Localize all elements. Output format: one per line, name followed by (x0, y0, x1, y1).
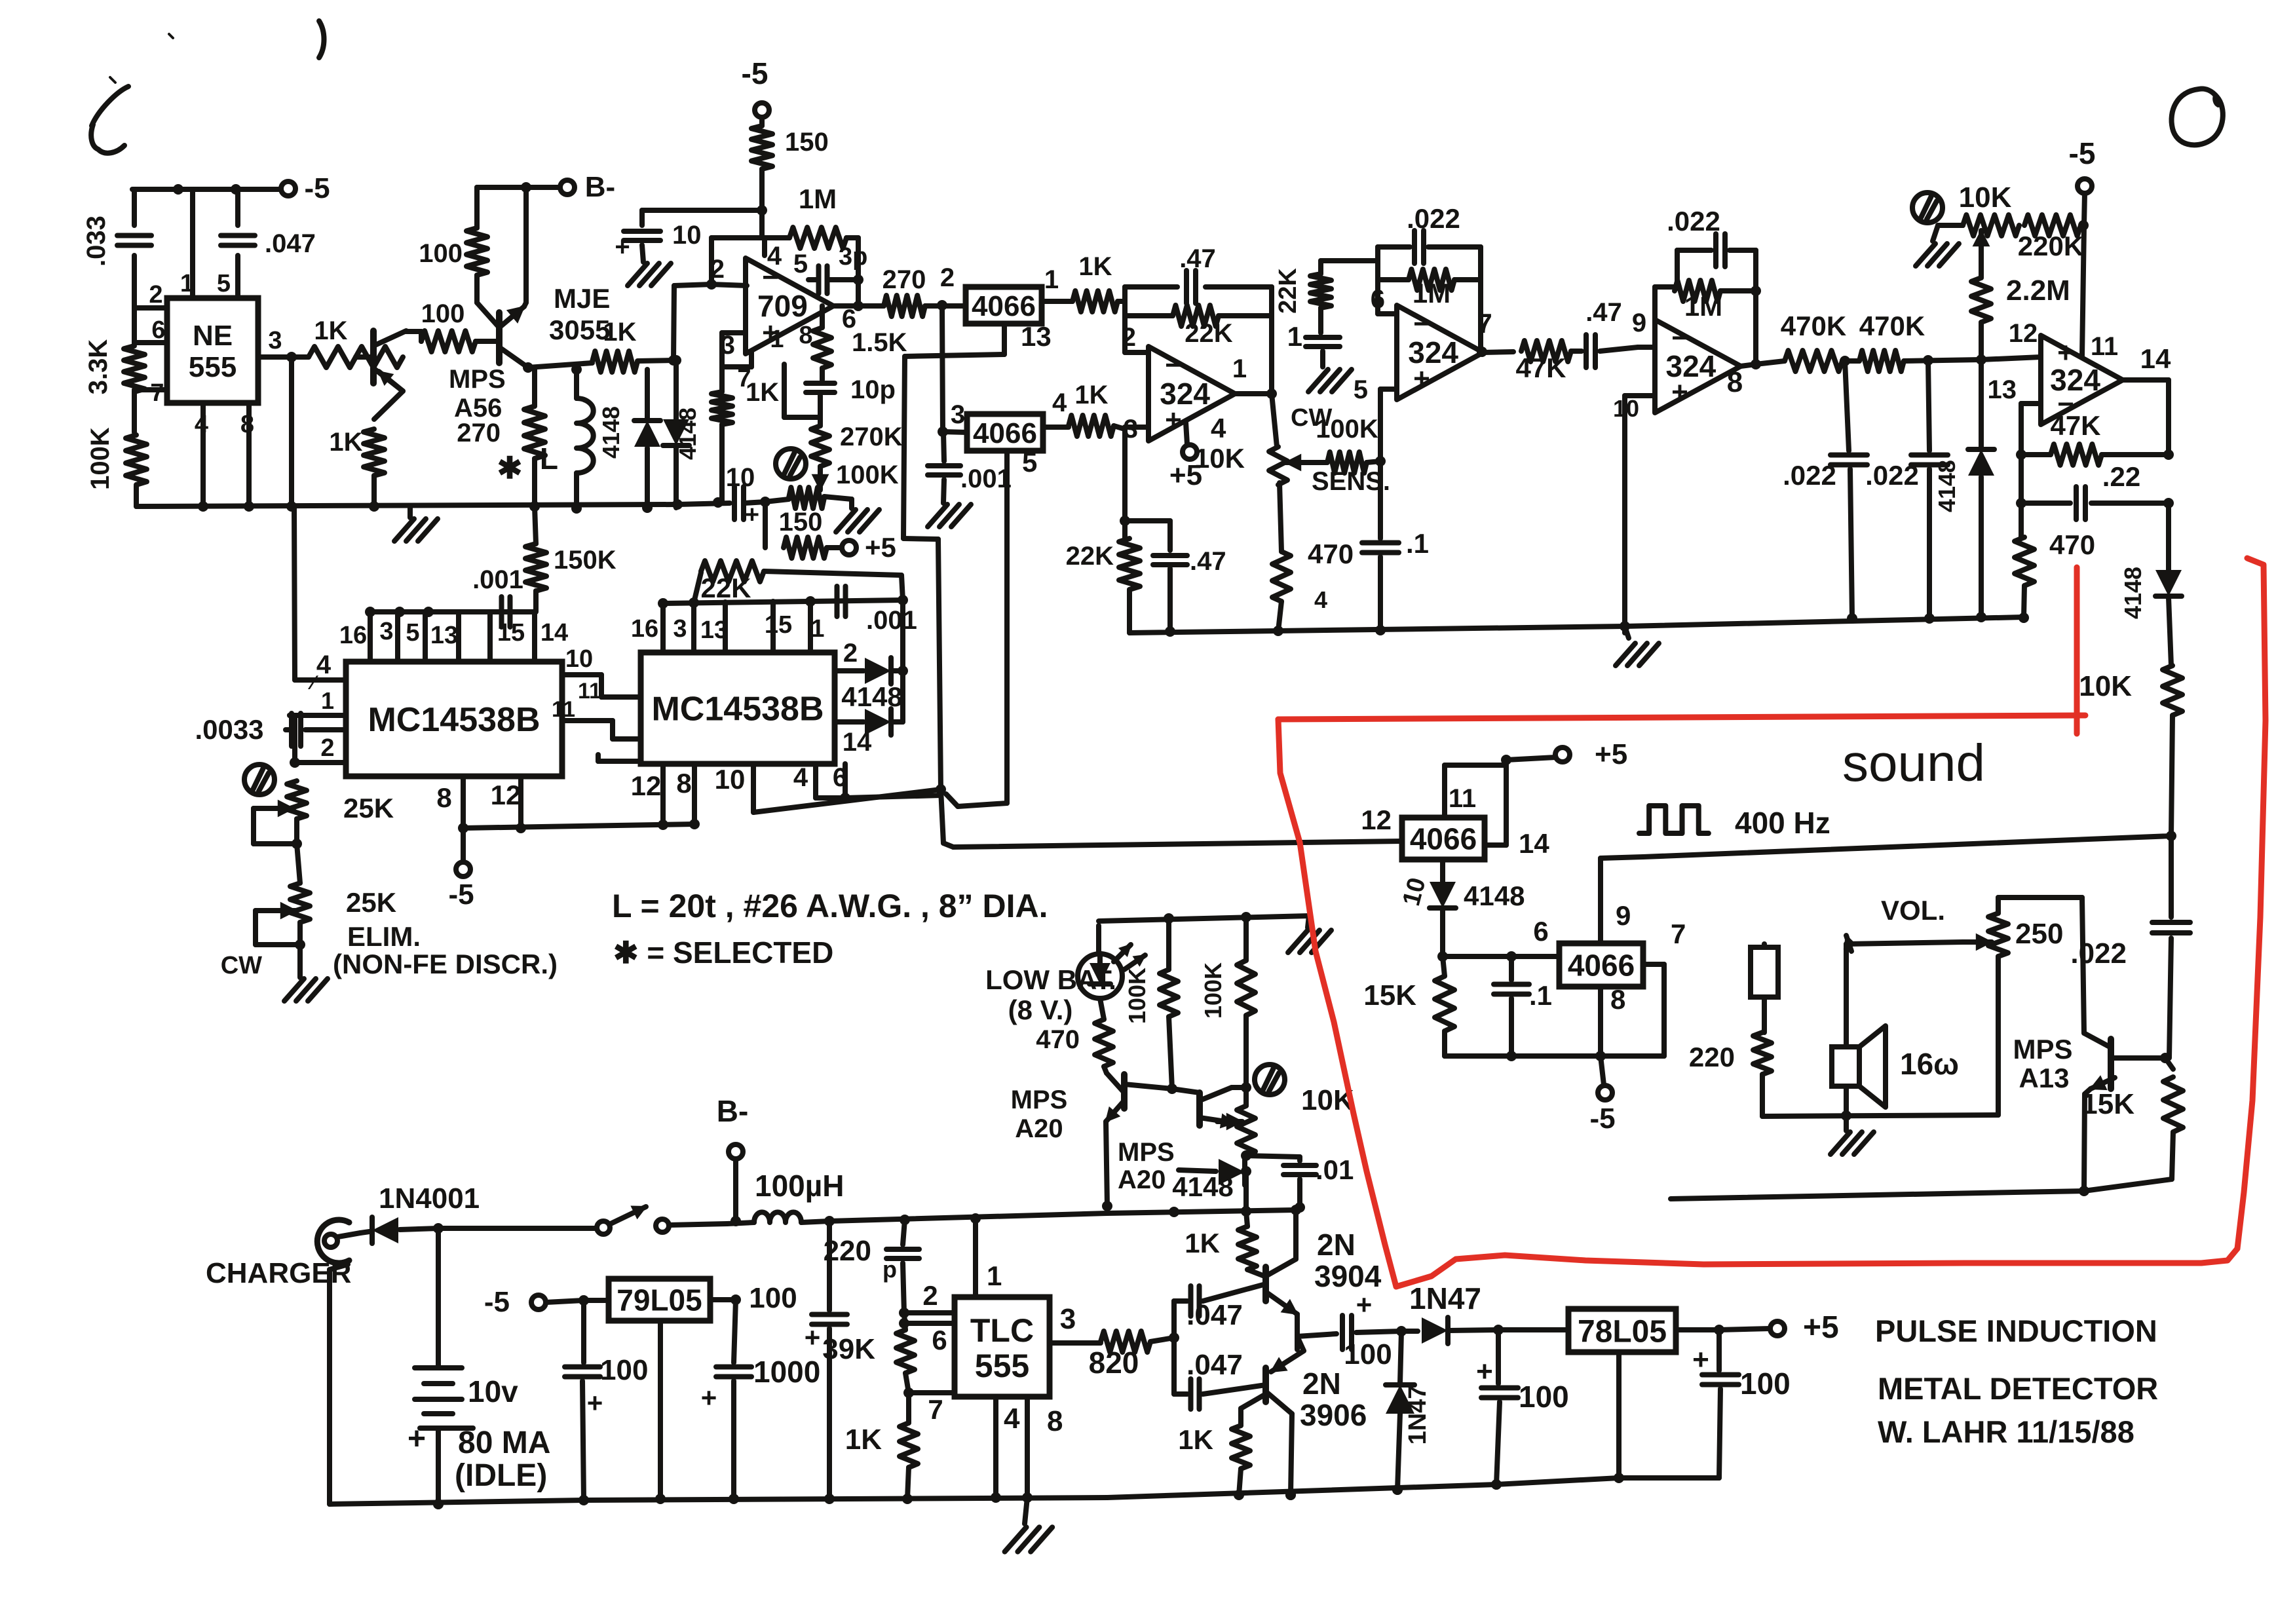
sound bottom rail (1445, 1051, 1664, 1061)
svg-text:1000: 1000 (753, 1355, 820, 1389)
label 1000 (701, 1355, 821, 1413)
svg-text:B-: B- (717, 1094, 749, 1128)
label ELIM (347, 921, 421, 952)
cap .022 (sound) (2070, 922, 2190, 1063)
node B- terminal (477, 171, 615, 203)
pin labels MC1 top (339, 618, 568, 649)
pin 3 output wire (258, 327, 309, 362)
4066#3 pin14 wire (1485, 828, 1549, 859)
svg-text:324: 324 (1408, 335, 1458, 369)
svg-text:10: 10 (672, 221, 702, 250)
svg-text:14: 14 (1519, 828, 1549, 859)
svg-text:8: 8 (1047, 1405, 1063, 1437)
svg-text:4066: 4066 (973, 417, 1037, 449)
resistor 270 (457, 368, 545, 506)
svg-text:3.3K: 3.3K (84, 339, 113, 395)
cap .47 (coupling) (1585, 298, 1646, 368)
svg-text:6: 6 (833, 763, 847, 792)
svg-text:2: 2 (710, 255, 725, 284)
svg-text:5: 5 (1354, 375, 1368, 404)
diode 4148 (sound) (2119, 567, 2182, 666)
svg-text:MPS: MPS (1011, 1086, 1068, 1114)
resistor 150 (-5 rail) (751, 117, 829, 238)
node 324#4 out (2123, 380, 2169, 452)
node -5 terminal (right) (2069, 136, 2096, 357)
wire A56 collector (405, 331, 421, 341)
pot 10K/220K (1938, 215, 2089, 261)
wire left column (134, 189, 136, 506)
svg-text:4: 4 (316, 651, 332, 679)
svg-text:79L05: 79L05 (616, 1283, 702, 1317)
svg-text:4: 4 (1211, 413, 1226, 444)
resistor 270 (709 out) (882, 263, 966, 316)
wire .01 col (1296, 1207, 1300, 1210)
svg-text:SENS.: SENS. (1312, 467, 1390, 496)
svg-text:11: 11 (552, 697, 575, 722)
324#4 pin11 label (2091, 332, 2171, 374)
MC2 pin2 diode (835, 639, 908, 684)
svg-text:15: 15 (497, 619, 525, 647)
label MJE 3055 (549, 283, 610, 345)
resistor 15K (out) (2081, 1058, 2183, 1179)
svg-text:4148: 4148 (1172, 1171, 1233, 1202)
red outline bottom edge (1396, 1249, 2237, 1287)
wire to 324#4 +in (1981, 319, 2041, 360)
wire pin5 to col (946, 794, 1007, 806)
709 pin1 label (770, 326, 784, 353)
bottom bus rail (left) (136, 497, 730, 514)
resistor 820 (1089, 1331, 1179, 1380)
svg-text:555: 555 (189, 351, 237, 383)
svg-text:3055: 3055 (549, 314, 610, 345)
resistor 1M (fb3) (1655, 280, 1761, 322)
svg-text:.22: .22 (2102, 461, 2140, 492)
wire 100 to MJE base (476, 339, 499, 344)
wire to A56 base (356, 354, 373, 360)
op-amp 324 #1 (1148, 347, 1235, 441)
zener 1N47 (1386, 1331, 1432, 1495)
svg-text:1K: 1K (329, 428, 362, 457)
709 pin8 label (799, 322, 812, 349)
svg-text:+: + (408, 1422, 426, 1456)
title W. LAHR (1878, 1414, 2134, 1449)
svg-text:A13: A13 (2019, 1063, 2069, 1093)
resistor 15K (sound) (1363, 956, 1454, 1056)
node -5 (sound) (1589, 1056, 1615, 1135)
MC2 pin8 stub (676, 764, 694, 824)
pot 100K body (744, 487, 852, 508)
red tick cross (2074, 567, 2080, 734)
svg-text:100K: 100K (86, 427, 115, 490)
svg-text:.47: .47 (1190, 547, 1226, 576)
svg-text:3: 3 (1060, 1303, 1076, 1335)
svg-text:10: 10 (715, 764, 746, 795)
resistor 1K (3904) (1185, 1211, 1264, 1276)
diode 4148 (audio) (1172, 1159, 1251, 1202)
svg-text:PULSE INDUCTION: PULSE INDUCTION (1875, 1313, 2157, 1348)
resistor 39K (822, 1308, 915, 1398)
red outline left edge (1278, 719, 1396, 1287)
op-amp 324 #3 (1655, 320, 1741, 413)
node fb1 left (1122, 287, 1148, 352)
svg-text:A20: A20 (1015, 1114, 1063, 1143)
resistor 100 (A56 collector) (421, 299, 476, 352)
ground (mid bus) (1616, 626, 1659, 666)
svg-text:11: 11 (2091, 332, 2118, 361)
MC2 pin10 stub (715, 764, 753, 812)
svg-text:4148: 4148 (674, 407, 701, 460)
svg-text:.0033: .0033 (195, 714, 263, 745)
transistor MPS A56 (373, 331, 406, 391)
svg-text:10v: 10v (468, 1374, 518, 1408)
svg-text:-5: -5 (304, 172, 330, 204)
MC1 pin8 stub (436, 776, 463, 828)
LED arrows (1114, 945, 1145, 970)
svg-text:8: 8 (1610, 984, 1625, 1015)
svg-text:10p: 10p (850, 375, 896, 404)
ground (speaker) (1830, 1116, 1874, 1154)
title PULSE INDUCTION (1875, 1313, 2157, 1348)
low bat top rail (1099, 912, 1309, 953)
svg-text:1M: 1M (1684, 291, 1722, 322)
svg-text:MC14538B: MC14538B (651, 690, 824, 728)
svg-text:1K: 1K (1178, 1424, 1213, 1455)
svg-text:✱ = SELECTED: ✱ = SELECTED (613, 935, 833, 970)
svg-text:220: 220 (824, 1235, 871, 1267)
cap 100 (reg in) (1476, 1330, 1569, 1490)
svg-text:150K: 150K (554, 546, 616, 575)
node +5 output (1719, 1310, 1839, 1345)
svg-text:100: 100 (749, 1282, 797, 1314)
svg-text:8: 8 (1727, 366, 1743, 398)
screw symbol (25K) (244, 765, 275, 795)
svg-text:-5: -5 (742, 56, 768, 90)
svg-text:L = 20t , #26 A.W.G. , 8” DI: L = 20t , #26 A.W.G. , 8” DIA. (612, 888, 1048, 924)
capacitor .033 (82, 216, 151, 267)
diode 1N47 (1401, 1281, 1504, 1344)
label CW (221, 952, 262, 979)
svg-text:1: 1 (1287, 321, 1302, 352)
svg-text:MC14538B: MC14538B (368, 701, 540, 739)
svg-text:10: 10 (1613, 395, 1639, 422)
MC2 pin12 stub (631, 764, 663, 825)
svg-text:LOW BAT.: LOW BAT. (985, 964, 1116, 995)
svg-text:10: 10 (726, 463, 755, 492)
wire 324#1 +in (1124, 415, 1148, 521)
svg-text:25K: 25K (343, 793, 394, 823)
svg-text:270: 270 (882, 265, 926, 294)
pin 7 stub 709 (722, 352, 751, 392)
cap 1 (st2) (1287, 321, 1352, 392)
pin 8 wire (240, 403, 254, 506)
svg-text:p: p (882, 1256, 897, 1283)
capacitor 10 electrolytic (615, 205, 767, 286)
label MPS A56 (449, 365, 506, 423)
svg-text:1K: 1K (1074, 381, 1108, 409)
svg-text:324: 324 (1665, 349, 1716, 383)
svg-text:100: 100 (1344, 1338, 1392, 1370)
ground (10K pot) (1916, 225, 1959, 266)
pin 1 wire (180, 189, 194, 298)
709 comp loop (784, 364, 820, 417)
resistor 2.2M (1971, 274, 2070, 360)
wire 324#1 out to sens pot (1272, 394, 1277, 447)
svg-text:4066: 4066 (972, 290, 1036, 322)
svg-text:11: 11 (578, 679, 601, 704)
cap 10 inline bus (726, 463, 759, 529)
svg-text:-5: -5 (1589, 1103, 1615, 1135)
svg-text:250: 250 (2015, 918, 2063, 950)
pen circle top right (2172, 89, 2223, 145)
svg-text:820: 820 (1089, 1346, 1139, 1380)
bottom bus (charger) (330, 1499, 584, 1509)
svg-text:.01: .01 (1316, 1154, 1354, 1185)
pin stubs MC1 top (370, 612, 535, 662)
resistor 150K (525, 501, 616, 612)
svg-text:+: + (615, 233, 630, 261)
pot 10K sens (1269, 404, 1332, 485)
svg-text:CW: CW (221, 952, 262, 979)
MC1 pin12 stub (491, 776, 522, 828)
label sound (1842, 734, 1985, 792)
svg-text:MJE: MJE (554, 283, 610, 314)
svg-text:+5: +5 (1803, 1310, 1839, 1345)
svg-text:+: + (1476, 1355, 1493, 1388)
svg-text:2N: 2N (1317, 1228, 1356, 1262)
main rail (psu) (824, 1201, 1112, 1226)
svg-text:+: + (805, 1322, 821, 1353)
svg-text:100K: 100K (1200, 962, 1226, 1019)
svg-text:1: 1 (987, 1260, 1002, 1291)
wire bus to MC14538B col (294, 506, 295, 680)
svg-text:1N4001: 1N4001 (379, 1182, 480, 1215)
svg-text:.022: .022 (1667, 206, 1720, 236)
svg-text:1N47: 1N47 (1409, 1281, 1481, 1315)
svg-text:6: 6 (151, 316, 165, 344)
bottom bus (right2) (1496, 1478, 1719, 1484)
svg-text:2: 2 (922, 1280, 938, 1311)
TLC pin7 (909, 1393, 955, 1425)
4066#4 pin7 (1643, 918, 1686, 1056)
bus rail mid (1129, 621, 1630, 637)
svg-text:9: 9 (1632, 309, 1646, 337)
svg-text:L: L (540, 442, 558, 476)
node 324#3 out (1727, 250, 1761, 398)
709 output (833, 301, 884, 333)
battery 10v (415, 1228, 473, 1509)
svg-text:W. LAHR 11/15/88: W. LAHR 11/15/88 (1878, 1414, 2134, 1449)
svg-text:4: 4 (195, 411, 208, 438)
MC2 pin10 wire (753, 789, 941, 812)
709 pin2 wire (710, 255, 747, 286)
svg-text:METAL DETECTOR: METAL DETECTOR (1878, 1371, 2158, 1406)
svg-text:.022: .022 (2070, 937, 2127, 970)
label 10K (pot) (1959, 181, 2012, 214)
svg-text:25K: 25K (346, 887, 396, 918)
svg-text:6: 6 (1533, 916, 1548, 947)
resistor 1K (555 out) (309, 316, 403, 368)
svg-text:1M: 1M (1413, 278, 1451, 309)
svg-text:8: 8 (676, 768, 691, 799)
svg-text:3904: 3904 (1314, 1259, 1382, 1293)
svg-text:.022: .022 (1783, 460, 1836, 491)
svg-text:sound: sound (1842, 734, 1985, 792)
wire pot to rail (1241, 1171, 1251, 1217)
wire 4066#2 input (938, 305, 967, 437)
diode 4148 a (597, 369, 660, 508)
stray pen mark top-left (91, 21, 324, 153)
cap .022 ladder b (1865, 360, 1948, 616)
svg-text:4: 4 (767, 242, 782, 271)
IC 4066 #1 (966, 287, 1042, 324)
label 4148 (MC2) (841, 681, 902, 712)
MC1 pin6 wire (598, 755, 641, 761)
node -5 (MC1) (448, 828, 474, 911)
svg-text:(NON-FE DISCR.): (NON-FE DISCR.) (333, 949, 558, 979)
op-amp 324 #2 (1397, 305, 1483, 400)
resistor 100K (sens) (1312, 415, 1390, 496)
IC 4066 #2 (951, 388, 1067, 451)
node 324#1 +in bias (1120, 516, 1130, 538)
node +5 (sound) (1501, 738, 1627, 770)
svg-text:.022: .022 (1407, 203, 1460, 234)
4066#1 pin13 (905, 321, 1052, 356)
svg-text:4066: 4066 (1410, 822, 1477, 856)
wire speaker col (1844, 944, 1849, 1047)
MC1 bottom wire (458, 819, 700, 833)
label 10K sens (1194, 443, 1245, 474)
svg-text:7: 7 (1671, 918, 1686, 949)
svg-text:22K: 22K (1185, 319, 1232, 348)
label +(battery) (408, 1422, 426, 1456)
title METAL DETECTOR (1878, 1371, 2158, 1406)
svg-text:1.5K: 1.5K (852, 328, 907, 357)
inductor L coil (540, 364, 594, 508)
pot 250 bottom (1996, 956, 2001, 1115)
svg-text:12: 12 (631, 770, 662, 801)
IC TLC555 (955, 1297, 1050, 1397)
resistor 100 (B-) (419, 228, 487, 303)
pot 250 (volume) (1963, 897, 2082, 956)
wire 324#3 -in (1638, 345, 1655, 350)
label 80 MA (458, 1426, 550, 1460)
TLC pin6 (904, 1323, 955, 1355)
pot 25K #1 (254, 781, 394, 849)
ground (555) (1005, 1498, 1053, 1552)
svg-text:2: 2 (843, 639, 858, 668)
label MPS A20 #2 (1118, 1138, 1175, 1194)
transistor 2N3904 (1266, 1210, 1297, 1314)
ground (pot) (836, 499, 879, 532)
transistor MPS A13 (2082, 897, 2165, 1191)
resistor 1K (3906 base) (1178, 1394, 1266, 1495)
IC 78L05 (1568, 1309, 1676, 1352)
svg-text:13: 13 (700, 616, 728, 644)
svg-text:14: 14 (2140, 343, 2171, 374)
4066#2 pin5 (1007, 447, 1037, 803)
resistor 22K (bias) (1066, 538, 1140, 633)
wire MJE emitter node (523, 362, 592, 373)
diode 4148 b (663, 355, 701, 508)
svg-text:1M: 1M (799, 183, 837, 214)
label NON-FE (333, 949, 558, 979)
svg-text:1K: 1K (603, 318, 636, 347)
switch (597, 1207, 727, 1235)
svg-text:.001: .001 (472, 565, 523, 594)
wire top rail to NE555 (132, 184, 241, 195)
wire 324#3 +in gnd col (1622, 459, 1627, 633)
svg-text:6: 6 (1371, 285, 1385, 314)
wire to switch (438, 1226, 596, 1231)
node -5 terminal (709) (742, 56, 769, 117)
wire 78L05 out (1676, 1325, 1724, 1335)
svg-text:1: 1 (1044, 265, 1059, 294)
svg-text:270K: 270K (840, 423, 903, 451)
stage2 bias node (1321, 261, 1378, 274)
svg-text:B-: B- (585, 171, 615, 203)
cap .022 (fb2) (1378, 203, 1481, 263)
transistor MJE 3055 (477, 303, 528, 368)
wire A20#1 emitter (1106, 1122, 1107, 1206)
IC 4066 #4 (1559, 943, 1643, 987)
svg-text:3: 3 (379, 618, 393, 645)
svg-text:6: 6 (932, 1325, 947, 1355)
svg-text:15: 15 (765, 611, 792, 639)
speaker 16ohm (1832, 1026, 1959, 1107)
svg-text:.047: .047 (1186, 1299, 1243, 1331)
capacitor .047 (221, 229, 316, 258)
wire 1K to junction (637, 355, 679, 366)
svg-text:1K: 1K (1078, 252, 1112, 281)
wire charger down (330, 1264, 348, 1504)
label VOL (1881, 895, 1945, 926)
cap .001 (MC1) (472, 565, 523, 627)
cap .022 (fb3) (1667, 206, 1756, 267)
node emitters (1295, 1314, 1300, 1350)
svg-text:ELIM.: ELIM. (347, 921, 421, 952)
wire junction up to 709 pin2 net (673, 279, 717, 360)
capacitor 10p (806, 368, 896, 404)
svg-text:.047: .047 (265, 229, 316, 258)
svg-text:100: 100 (1519, 1380, 1569, 1414)
pot wiper 2.2M (1973, 231, 1989, 278)
svg-text:10K: 10K (1194, 443, 1245, 474)
wire to 78L05 (1498, 1327, 1568, 1332)
4066#4 pin8 (1601, 984, 1625, 1056)
svg-text:5: 5 (793, 250, 808, 278)
MC1 pin1 wire (290, 687, 346, 715)
4066#2 pin4 out (1043, 425, 1069, 430)
4066#4 pin9 (1601, 858, 1631, 943)
IC MC14538B #1 (346, 662, 562, 776)
svg-text:.001: .001 (960, 464, 1012, 493)
svg-text:22K: 22K (1274, 268, 1302, 314)
svg-text:16ω: 16ω (1900, 1047, 1959, 1081)
svg-text:.1: .1 (1406, 528, 1429, 559)
resistor 100K (555 pin7) (86, 427, 147, 490)
709 3p cap (808, 243, 867, 293)
phone jack (1751, 944, 1778, 1032)
charger connector (317, 1220, 349, 1263)
svg-text:150: 150 (785, 128, 829, 157)
svg-text:22K: 22K (1066, 542, 1114, 571)
wire 79L05 gnd (655, 1321, 666, 1504)
svg-text:+5: +5 (865, 532, 896, 563)
cap .47 (bias) (1125, 521, 1226, 633)
wire sound col (2169, 836, 2174, 917)
resistor 1K (4066#2) (1069, 381, 1125, 436)
label CHARGER (206, 1257, 351, 1289)
